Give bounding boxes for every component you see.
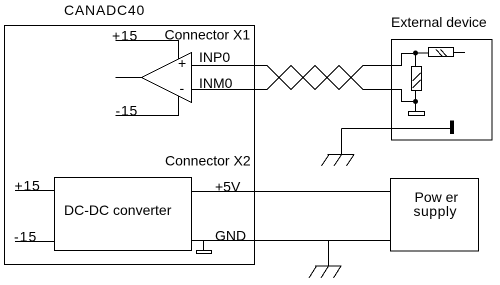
wire top dot to resistor R1 bbox=[415, 53, 417, 67]
svg-text:CANADC40: CANADC40 bbox=[64, 2, 145, 18]
svg-text:-: - bbox=[180, 80, 185, 96]
node junction dot top bbox=[413, 51, 418, 56]
earth ground (top) bbox=[328, 129, 355, 155]
wire INM0 (twisted pair bottom) bbox=[192, 66, 414, 102]
signal ground on GND net bbox=[203, 241, 205, 251]
CANADC40 board outline bbox=[5, 26, 255, 265]
svg-text:Connector X2: Connector X2 bbox=[165, 153, 251, 169]
svg-text:supply: supply bbox=[414, 203, 457, 219]
wire resistor R2 stub bbox=[454, 52, 466, 54]
wire -15 input bbox=[15, 241, 55, 243]
resistor R2 bbox=[429, 48, 454, 57]
svg-text:DC-DC converter: DC-DC converter bbox=[64, 202, 172, 218]
wire top dot to resistor R2 bbox=[416, 52, 429, 54]
node junction dot bottom bbox=[413, 99, 418, 104]
wire -15 to op-amp bbox=[116, 96, 179, 116]
svg-text:External device: External device bbox=[391, 14, 487, 30]
svg-text:INM0: INM0 bbox=[199, 75, 233, 91]
wire +15 input bbox=[15, 190, 55, 192]
wire INP0 (twisted pair top) bbox=[192, 54, 414, 90]
signal ground bar in external device bbox=[409, 112, 425, 116]
DC-DC converter U2 bbox=[55, 178, 192, 251]
svg-text:+: + bbox=[178, 55, 186, 71]
wire resistor R1 to bottom dot and ground bar bbox=[415, 91, 417, 112]
External device box bbox=[392, 40, 493, 141]
wire chassis to earth ground bbox=[342, 128, 452, 130]
wire +15 to op-amp bbox=[116, 41, 179, 60]
earth ground (bottom) bbox=[315, 241, 342, 267]
chassis terminal bar bbox=[451, 121, 454, 134]
wire op-amp output stub bbox=[116, 77, 142, 79]
wire +5V bbox=[192, 191, 391, 193]
wire GND bbox=[192, 240, 391, 242]
resistor R1 (termination) bbox=[412, 67, 422, 91]
Power supply box bbox=[391, 179, 479, 252]
svg-text:INP0: INP0 bbox=[199, 49, 230, 65]
op-amp U1 bbox=[142, 53, 192, 103]
